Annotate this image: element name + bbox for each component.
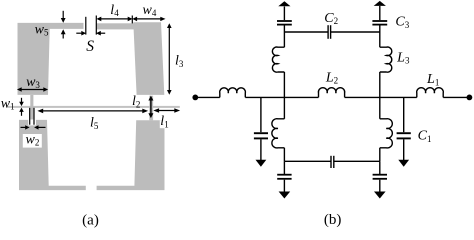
svg-text:l3: l3 <box>175 54 184 69</box>
capacitor (left shunt) <box>254 133 268 138</box>
wire <box>443 96 467 98</box>
label l2 <box>132 94 140 109</box>
wire <box>283 7 285 21</box>
svg-text:l5: l5 <box>90 116 99 131</box>
ground (right shunt) <box>398 160 409 167</box>
wire: right shunt branch C1 <box>403 97 405 132</box>
patch: top coupling strip l4 <box>97 23 134 29</box>
dimension w5 <box>61 11 66 39</box>
label w3 <box>26 75 40 90</box>
label L2 <box>325 70 338 85</box>
wire <box>195 96 220 98</box>
wire <box>403 139 405 160</box>
label l1 <box>160 114 168 129</box>
label L1 <box>426 72 439 87</box>
stub: left vertical stub w2 <box>30 95 33 120</box>
wire: left resonator branch lower <box>283 97 285 118</box>
svg-text:C3: C3 <box>395 15 409 30</box>
dimension S <box>76 16 105 36</box>
wire: right bottom ground branch <box>379 161 381 174</box>
wire <box>379 25 381 47</box>
label w4 <box>142 3 156 18</box>
inductor (left branch upper) <box>272 47 284 72</box>
wire <box>345 96 417 98</box>
dimension w1 <box>19 98 24 116</box>
svg-text:l1: l1 <box>160 114 168 129</box>
svg-text:w1: w1 <box>1 96 15 111</box>
dimension w3 <box>17 87 48 92</box>
inductor L3 <box>380 47 392 72</box>
notch: white cut for l1 label <box>160 120 165 128</box>
wire <box>379 180 381 192</box>
svg-text:w4: w4 <box>142 3 156 18</box>
ground (left top, arrow up) <box>278 1 290 6</box>
inductor L2 <box>318 88 344 98</box>
wire <box>245 96 318 98</box>
capacitor C2 <box>328 25 331 39</box>
capacitor (right bottom) <box>373 175 387 179</box>
notch: white cut around w2 leaders <box>28 120 36 126</box>
svg-text:C2: C2 <box>324 11 338 26</box>
capacitor C1 <box>397 133 411 138</box>
inductor L1 <box>417 88 444 98</box>
capacitor C3 <box>372 21 387 25</box>
wire: top rail <box>284 31 379 33</box>
capacitor (left top shunt) <box>277 21 292 25</box>
label L3 <box>396 50 410 65</box>
label C1 <box>418 129 432 144</box>
inductor (left branch lower) <box>272 119 285 148</box>
svg-text:l2: l2 <box>132 94 140 109</box>
dimension l5 <box>37 109 148 114</box>
patch: bottom-right block with foot <box>97 120 165 190</box>
label S <box>86 38 94 55</box>
inductor (input series) <box>220 88 246 98</box>
ground (right bottom) <box>374 192 386 199</box>
dimension l4 <box>97 16 133 24</box>
ground (right top, arrow up) <box>374 1 386 6</box>
label l5 <box>90 116 99 131</box>
wire <box>379 148 381 162</box>
patch: top-left block with w5 strip <box>18 23 84 95</box>
port node P1 (left) <box>192 95 198 101</box>
ground (left bottom) <box>279 192 291 199</box>
label w5 <box>35 22 49 37</box>
label C3 <box>395 15 409 30</box>
wire <box>283 25 285 47</box>
wire: left shunt branch <box>260 97 262 132</box>
label C2 <box>324 11 338 26</box>
wire: bottom rail <box>284 160 379 162</box>
port node P2 (right) <box>467 95 473 101</box>
wire: right resonator branch upper <box>379 72 381 97</box>
svg-text:L3: L3 <box>396 50 410 65</box>
inductor (right branch lower) <box>380 119 393 148</box>
stub: right vertical stub l2 <box>149 96 153 121</box>
capacitor (bottom series) <box>331 156 334 168</box>
wire: left bottom ground branch <box>283 161 285 174</box>
wire <box>379 6 381 20</box>
ground (left shunt) <box>256 160 267 167</box>
dimension l3 <box>167 23 172 95</box>
svg-text:l4: l4 <box>110 3 119 18</box>
dimension l1 <box>153 108 180 113</box>
svg-text:S: S <box>86 38 94 55</box>
notch: white box behind w2 label <box>23 134 42 148</box>
label (a) <box>82 213 99 229</box>
dimension w4 <box>132 17 165 22</box>
wire <box>260 139 262 160</box>
patch: bottom-left block with foot <box>19 120 86 190</box>
wire <box>283 148 285 162</box>
label w1 <box>1 96 15 111</box>
microstrip line l5 (w1 thin line) <box>6 106 180 108</box>
wire: right resonator branch lower <box>379 97 381 118</box>
dimension w2 leaders and arrows <box>21 108 46 130</box>
svg-text:L2: L2 <box>325 70 338 85</box>
svg-text:L1: L1 <box>426 72 439 87</box>
wire <box>283 180 285 192</box>
wire: left resonator branch upper <box>283 72 285 97</box>
dimension l2 <box>148 96 153 119</box>
svg-text:C1: C1 <box>418 129 432 144</box>
label w2 <box>25 132 39 147</box>
capacitor (left bottom) <box>277 175 291 179</box>
label (b) <box>324 212 342 228</box>
svg-text:(b): (b) <box>324 212 342 228</box>
svg-text:(a): (a) <box>82 213 99 229</box>
label l4 <box>110 3 119 18</box>
patch: top-right block <box>133 22 164 95</box>
label l3 <box>175 54 184 69</box>
